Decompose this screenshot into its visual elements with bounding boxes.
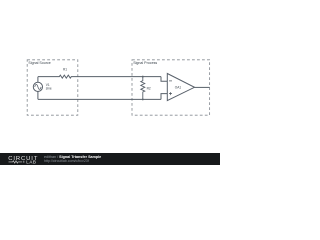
svg-text:OA1: OA1 [175, 85, 182, 89]
svg-text:LAB: LAB [26, 160, 36, 165]
svg-text:R1: R1 [63, 68, 67, 72]
svg-text:http://circuitlab.com/c/bcv23f: http://circuitlab.com/c/bcv23f [44, 159, 89, 163]
svg-text:Signal Process: Signal Process [133, 61, 157, 65]
svg-text:Signal Source: Signal Source [28, 61, 50, 65]
svg-text:R2: R2 [147, 86, 151, 90]
svg-text:sine: sine [46, 87, 52, 91]
